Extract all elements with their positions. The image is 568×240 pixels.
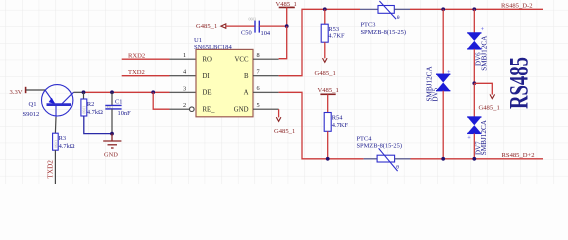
svg-text:RE_: RE_ [203, 106, 216, 113]
svg-text:R3: R3 [59, 135, 66, 142]
svg-text:G485_1: G485_1 [274, 128, 295, 135]
node junction R53 top [323, 7, 327, 11]
node junction DV7 bottom [472, 157, 476, 161]
wire base to R3 [54, 117, 57, 133]
wire V485 bar to R54 [327, 94, 329, 112]
node junction DV6 top [472, 7, 476, 11]
wire V485 bar down to node [286, 7, 288, 26]
wire DE node to RE pin [153, 92, 169, 109]
svg-text:TXD2: TXD2 [47, 160, 55, 179]
background grid [0, 0, 568, 184]
pin 5 GND [253, 108, 279, 110]
svg-text:G485_1: G485_1 [479, 105, 500, 112]
TVS diode DV5 SMBJ12CA [426, 66, 452, 102]
svg-text:10nF: 10nF [118, 110, 132, 117]
svg-text:+: + [467, 135, 471, 142]
pin 4 DI [170, 75, 197, 77]
wire C1 bottom lead [111, 109, 113, 134]
svg-text:Q1: Q1 [29, 101, 37, 108]
svg-text:SPMZB-8(15-25): SPMZB-8(15-25) [361, 29, 406, 36]
svg-text:PTC3: PTC3 [361, 22, 376, 29]
node junction DE/RE branch [151, 90, 155, 94]
resistor R2 [81, 99, 103, 116]
power port 3.3V [10, 87, 26, 96]
wire R2 bottom to GND node [84, 116, 112, 134]
svg-text:+: + [447, 69, 451, 76]
wire DV6 top lead [473, 9, 475, 33]
svg-text:GND: GND [234, 106, 249, 113]
svg-text:SMBJ12CA: SMBJ12CA [426, 66, 434, 102]
svg-text:R54: R54 [332, 115, 343, 122]
wire top rail right [410, 8, 543, 10]
svg-text:RXD2: RXD2 [128, 52, 145, 59]
node junction DV5 bottom [441, 157, 445, 161]
wire Q1 collector to rail [74, 91, 84, 93]
svg-text:C1: C1 [115, 98, 122, 105]
wire DV6 bottom to G485 node [473, 49, 475, 83]
svg-text:3: 3 [183, 85, 186, 92]
node junction C1 top [110, 90, 114, 94]
pin 6 A [253, 91, 279, 93]
svg-text:4.7KF: 4.7KF [328, 33, 345, 40]
svg-text:TXD2: TXD2 [128, 69, 145, 76]
svg-text:RS485_D+2: RS485_D+2 [502, 152, 535, 159]
svg-text:8: 8 [257, 52, 260, 59]
svg-text:SMBJ12CA: SMBJ12CA [480, 119, 488, 155]
svg-text:S9012: S9012 [23, 111, 40, 118]
svg-text:DE: DE [203, 90, 212, 97]
svg-text:VCC: VCC [235, 57, 249, 64]
svg-text:θ: θ [396, 165, 399, 171]
svg-text:DI: DI [203, 73, 211, 80]
pin 3 DE [170, 91, 197, 93]
svg-text:RS485: RS485 [504, 57, 533, 109]
node junction common G485 [472, 81, 476, 85]
svg-text:G485_1: G485_1 [196, 23, 217, 30]
node junction R54 bottom [326, 157, 330, 161]
svg-text:SPMZB-8(15-25): SPMZB-8(15-25) [357, 142, 402, 149]
svg-text:0603: 0603 [82, 106, 87, 114]
svg-text:GND: GND [104, 151, 118, 158]
svg-text:4.7KF: 4.7KF [332, 122, 349, 129]
TVS diode DV6 SMBJ12CA [467, 26, 488, 71]
wire R3 to bottom edge [54, 150, 56, 184]
svg-text:7: 7 [257, 68, 260, 75]
fuse PTC3 [360, 1, 410, 36]
pin 1 RO [170, 58, 197, 60]
wire 3.3V to Q1 emitter [26, 89, 45, 91]
wire C50 to V485 node [260, 25, 287, 27]
wire node down to DV7 [473, 83, 475, 117]
pin 7 B [253, 75, 279, 77]
svg-text:1: 1 [183, 52, 186, 59]
svg-text:4.7kΩ: 4.7kΩ [87, 109, 103, 116]
svg-text:θ: θ [397, 15, 400, 21]
wire pin6 A down to bottom rail [279, 92, 364, 159]
svg-text:6: 6 [257, 85, 260, 92]
port G485_1 (below R53) [323, 58, 328, 62]
svg-text:2: 2 [183, 102, 186, 109]
wire DV5 bottom lead [442, 91, 444, 159]
wire port to C50 [226, 25, 255, 27]
wire bottom rail right [411, 158, 544, 160]
wire pin5 to port G485_1 [278, 109, 280, 117]
pin 8 VCC [253, 58, 279, 60]
pin 2 RE_ with bubble [170, 108, 190, 110]
transistor Q1 S9012 [42, 85, 74, 117]
wire pin7 B up to top rail [279, 9, 360, 75]
svg-text:RO: RO [203, 57, 213, 64]
svg-text:104: 104 [261, 30, 271, 37]
IC U1 SN65LBC184 body [196, 49, 253, 116]
svg-text:B: B [244, 73, 249, 80]
node junction R2 top [82, 90, 86, 94]
resistor R53 [321, 24, 345, 42]
wire R53 bottom to port [324, 42, 326, 58]
svg-text:U1: U1 [194, 37, 202, 44]
TVS diode DV7 SMBJ12CA [467, 117, 488, 155]
svg-text:4.7kΩ: 4.7kΩ [59, 143, 75, 150]
svg-text:3.3V: 3.3V [10, 89, 23, 96]
wire C1 top lead [111, 92, 113, 105]
svg-text:RS485_D-2: RS485_D-2 [501, 2, 533, 9]
wire R53 top stub [324, 9, 326, 24]
wire collector rail to DE pin (red) [84, 91, 170, 93]
resistor R54 [324, 113, 348, 132]
svg-text:SMBJ12CA: SMBJ12CA [480, 35, 488, 71]
svg-text:+: + [481, 26, 485, 33]
fuse PTC4 [357, 136, 411, 172]
wire DV5 top lead [442, 9, 444, 74]
wire TXD2 [122, 75, 170, 77]
svg-text:C50: C50 [241, 30, 252, 37]
node junction GND [110, 132, 114, 136]
wire RXD2 [122, 58, 170, 60]
node junction DV5 top [441, 7, 445, 11]
wire DV7 bottom lead [473, 133, 475, 158]
capacitor C1 [105, 98, 131, 116]
ground GND [103, 134, 121, 148]
wire R2 top lead [83, 92, 85, 99]
wire node to port G485_1 [474, 83, 492, 94]
svg-text:R2: R2 [87, 101, 94, 108]
svg-text:V485_1: V485_1 [318, 87, 339, 94]
capacitor C50 104 [241, 18, 271, 37]
resistor R3 [53, 133, 75, 150]
wire R54 bottom to rail [327, 131, 329, 159]
svg-text:5: 5 [257, 102, 260, 109]
svg-text:G485_1: G485_1 [315, 70, 336, 77]
wire node down to pin 8 [279, 26, 287, 59]
svg-text:A: A [244, 90, 249, 97]
node junction VCC net [285, 24, 289, 28]
